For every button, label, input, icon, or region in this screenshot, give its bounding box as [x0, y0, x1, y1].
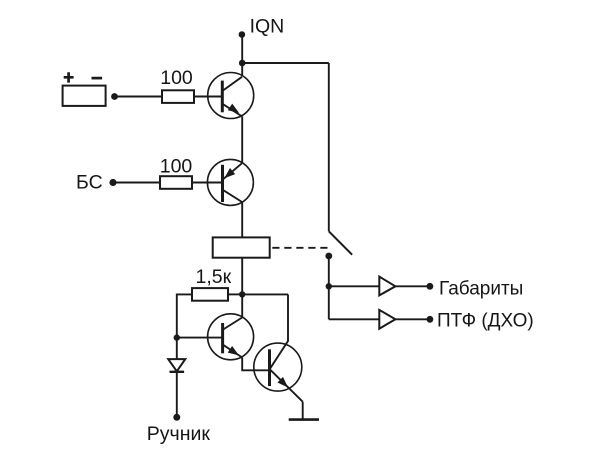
wire relay to lower node	[241, 258, 243, 295]
resistor R1	[162, 90, 194, 103]
wire to buffer 1	[329, 285, 380, 287]
wire buffer 2 to terminal	[395, 318, 430, 320]
wire БС to R2	[113, 182, 160, 184]
svg-text:ПТФ (ДХО): ПТФ (ДХО)	[437, 310, 534, 331]
transistor Q3	[208, 314, 254, 360]
wire node down to Q3 collector	[241, 294, 243, 317]
resistor R2	[160, 176, 192, 189]
node branch junction dot	[326, 283, 332, 289]
switch mechanical link dashed	[272, 247, 328, 249]
wire right vertical down to switch	[328, 63, 330, 231]
wire node to Q4 collector horizontal	[242, 293, 288, 295]
label ПТФ (ДХО)	[437, 310, 534, 331]
label Габариты	[439, 278, 523, 299]
label Ручник	[147, 423, 211, 445]
node diode junction dot	[174, 334, 180, 340]
svg-text:100: 100	[160, 67, 193, 89]
terminal dot ПТФ	[427, 316, 434, 323]
node battery terminal dot	[111, 93, 118, 100]
diode D1	[168, 359, 185, 372]
switch S1 blade	[329, 231, 352, 254]
terminal IQN dot	[239, 31, 246, 38]
wire top horizontal	[242, 62, 329, 64]
transistor Q1	[208, 73, 254, 119]
svg-text:Габариты: Габариты	[439, 278, 523, 299]
wire Q3 emitter to Q4 base	[242, 358, 269, 371]
wire to buffer 2	[329, 318, 380, 320]
value label 100 (R2)	[160, 156, 193, 178]
label БС	[76, 172, 103, 194]
wire battery dot to R1	[115, 96, 163, 98]
svg-text:Ручник: Ручник	[147, 423, 211, 445]
node switch lower contact dot	[325, 253, 332, 260]
wire diode to Ручник terminal	[176, 372, 178, 418]
transistor Q4	[254, 341, 303, 402]
wire R1 to Q1 base	[194, 96, 222, 98]
wire node to Q3 base	[177, 337, 223, 339]
battery minus label	[92, 77, 103, 80]
wire R3 left corner down	[177, 294, 192, 337]
value label 1,5к	[196, 266, 232, 288]
relay coil K1	[213, 237, 270, 257]
resistor R3	[192, 288, 228, 301]
wire Q4 collector vertical	[287, 294, 289, 341]
ground	[289, 418, 319, 421]
svg-text:1,5к: 1,5к	[196, 266, 232, 288]
svg-text:БС: БС	[76, 172, 103, 194]
wire buffer 1 to terminal	[395, 285, 430, 287]
battery B1	[63, 86, 106, 106]
buffer amplifier triangle 2	[379, 310, 395, 329]
label IQN	[250, 16, 285, 38]
terminal dot БС	[109, 179, 116, 186]
wire Q4 emitter down	[302, 402, 304, 420]
wire Q1 collector up to IQN terminal	[241, 35, 243, 77]
svg-text:IQN: IQN	[250, 16, 285, 38]
buffer amplifier triangle 1	[379, 277, 395, 296]
wire node to R3	[228, 293, 242, 295]
node junction dot below IQN	[239, 60, 246, 67]
transistor Q2	[207, 159, 253, 205]
value label 100 (R1)	[160, 67, 193, 89]
svg-text:100: 100	[160, 156, 193, 178]
wire R2 to Q2 base	[192, 182, 222, 184]
wire switch down to branches	[328, 256, 330, 319]
terminal dot Ручник	[173, 414, 180, 421]
terminal dot Габариты	[427, 283, 434, 290]
battery plus label	[64, 72, 74, 82]
wire Q2 collector to relay	[241, 202, 243, 237]
wire Q1 emitter to Q2 emitter	[241, 117, 243, 164]
node lower junction dot	[239, 291, 245, 297]
wire node to diode	[176, 338, 178, 360]
